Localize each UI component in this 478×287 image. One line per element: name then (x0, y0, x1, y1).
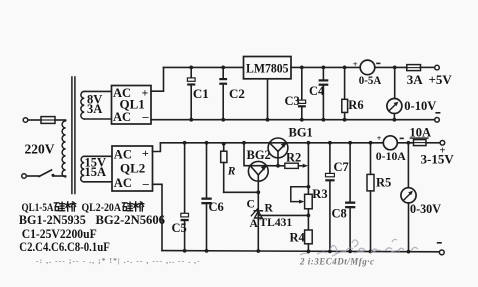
node C5 top (183, 141, 187, 145)
wire meter to fuse10A (397, 142, 413, 144)
node BG2 collector tap (242, 141, 246, 145)
220V primary terminal bottom (22, 174, 27, 179)
node R3 wiper loop top (307, 185, 311, 189)
svg-text:+5V: +5V (429, 72, 453, 87)
fuse 3A (407, 65, 421, 71)
wire QL1 + to top rail (151, 67, 164, 91)
svg-text:C7: C7 (334, 160, 349, 174)
svg-text:0-5A: 0-5A (359, 73, 382, 87)
svg-text:C8: C8 (332, 207, 347, 221)
svg-text:0-30V: 0-30V (410, 202, 441, 216)
capacitor C4 (322, 67, 324, 79)
wire terminal to switch (26, 175, 39, 177)
transistor BG1 (268, 138, 288, 158)
wire vertical R3 branch (307, 143, 309, 195)
wire R3 bottom to junction (307, 209, 309, 230)
svg-text:C3: C3 (285, 94, 300, 108)
svg-text:15A: 15A (85, 165, 107, 179)
wire 15V top to QL2 (84, 155, 112, 157)
node C6 top (205, 141, 209, 145)
terminal +5V (435, 65, 440, 70)
node C1 top (189, 66, 193, 70)
svg-text:2 i:3EC4Dt/Mfg·c: 2 i:3EC4Dt/Mfg·c (299, 257, 375, 267)
bottom rail stage1 (151, 119, 435, 121)
svg-text:3A: 3A (407, 72, 424, 87)
regulator U1 LM7805 (244, 57, 292, 79)
svg-text:R4: R4 (290, 231, 306, 245)
svg-text:LM7805: LM7805 (246, 61, 289, 75)
secondary winding 15V (81, 156, 85, 182)
wire fuse to terminal (426, 142, 440, 144)
switch K (39, 170, 52, 177)
svg-text:C2: C2 (229, 86, 245, 101)
wire QL2 + to rail2 (153, 143, 161, 152)
wire QL2 - down (153, 184, 163, 250)
transistor BG2 (248, 161, 268, 181)
capacitor C2 (222, 67, 224, 78)
node BG1 base / R2 (276, 164, 280, 168)
capacitor C5 (184, 143, 186, 214)
svg-text:BG2: BG2 (247, 148, 271, 162)
node dots bottom rail stage2 (183, 249, 187, 253)
wire LM7805 out rail (291, 66, 360, 68)
svg-text:R6: R6 (348, 98, 363, 112)
svg-text:C2.C4.C6.C8-0.1uF: C2.C4.C6.C8-0.1uF (19, 239, 110, 254)
rail2 top left part (160, 142, 270, 144)
node R5 top (369, 141, 373, 145)
secondary winding 8V (81, 91, 84, 119)
svg-text:R: R (227, 166, 236, 178)
svg-text:QL2: QL2 (120, 160, 145, 175)
svg-text:R: R (265, 203, 274, 215)
node C2 top (221, 66, 225, 70)
wire BG2 emitter to BG1 base (266, 165, 278, 167)
svg-text:R5: R5 (376, 176, 391, 190)
svg-text:C1: C1 (193, 86, 209, 101)
svg-text:0-10V: 0-10V (404, 99, 436, 113)
resistor R (223, 143, 225, 151)
node R2/rail vertical top (307, 141, 311, 145)
minus mark stage1 (435, 112, 440, 114)
capacitor C8 (349, 143, 351, 202)
transformer core (71, 77, 73, 194)
voltmeter M4 0-30V (407, 143, 409, 188)
svg-text:C4: C4 (309, 84, 325, 98)
fuse F (primary) (41, 117, 55, 124)
wire rail to BG2 left (244, 143, 250, 166)
svg-text:C: C (247, 199, 255, 211)
resistor R5 (370, 143, 372, 175)
svg-text:-: ,. --- ;-- - ., ;* !*| .-.: -: ,. --- ;-- - ., ;* !*| .-. -- , --- ,… (36, 256, 201, 265)
svg-text:BG1: BG1 (289, 125, 313, 139)
svg-text:BG1-2N5935: BG1-2N5935 (19, 212, 86, 227)
ammeter M1 0-5A (360, 60, 375, 75)
capacitor C1 (190, 67, 192, 78)
potentiometer R3 (305, 194, 313, 209)
fuse 10A (414, 140, 427, 146)
wire rail to 3A fuse (375, 66, 407, 68)
wire 8V top to QL1 (84, 90, 111, 92)
wire 15V bottom to QL2 (84, 181, 112, 183)
bridge rectifier QL2 (112, 146, 153, 191)
svg-text:10A: 10A (410, 125, 432, 139)
svg-text:–: – (142, 176, 150, 190)
terminal minus stage2 (439, 250, 444, 255)
node C8 top (348, 141, 352, 145)
svg-text:R3: R3 (312, 187, 327, 201)
node R6 top (343, 66, 347, 70)
svg-text:0-10A: 0-10A (376, 149, 406, 163)
svg-text:3-15V: 3-15V (421, 152, 455, 167)
watermark squiggles bottom right (300, 239, 418, 256)
capacitor C7 (329, 143, 331, 174)
wire LM7805 ground pin (267, 79, 269, 120)
resistor R6 (344, 67, 346, 99)
svg-text:A: A (250, 218, 259, 230)
wire R bottom to TL431 node (224, 191, 259, 193)
svg-text:TL431: TL431 (260, 217, 293, 229)
minus mark stage2 (437, 242, 442, 244)
terminal minus stage1 (435, 118, 440, 123)
svg-text:C5: C5 (172, 221, 187, 235)
node C3 top (300, 66, 304, 70)
svg-text:C6: C6 (209, 200, 224, 214)
node 0-10V top (393, 66, 397, 70)
wire fuse to primary winding (55, 119, 66, 121)
wire TL431 ref (258, 214, 308, 216)
ammeter M3 0-10A (383, 136, 397, 150)
resistor R2 (278, 165, 285, 167)
220V primary terminal top (23, 118, 28, 123)
svg-text:+: + (377, 133, 382, 143)
bridge rectifier QL1 (112, 86, 152, 125)
node 0-30V top (407, 141, 411, 145)
terminal 3-15V + (440, 141, 445, 146)
wire fuse to +5V terminal (421, 66, 435, 68)
svg-text:220V: 220V (25, 142, 55, 157)
node R3/R4/ref (307, 214, 311, 218)
svg-text:+: + (142, 146, 149, 160)
svg-text:BG2-2N5606: BG2-2N5606 (96, 212, 166, 227)
node dots bottom rail stage1 (189, 118, 193, 122)
node C4 top (322, 66, 326, 70)
voltmeter M2 0-10V (394, 67, 396, 98)
svg-text:AC: AC (114, 176, 132, 190)
resistor R4 (305, 230, 313, 244)
capacitor C6 (206, 143, 208, 198)
node C7 top (328, 141, 332, 145)
node R top (222, 142, 226, 146)
svg-text:3A: 3A (87, 102, 102, 116)
watermark faint text row (36, 256, 375, 266)
primary winding (62, 121, 66, 177)
wire 8V bottom to QL1 (84, 118, 111, 120)
capacitor C3 (301, 67, 303, 100)
wire top rail (stage1) (164, 66, 244, 68)
svg-text:+: + (142, 86, 149, 100)
svg-text:+: + (353, 59, 358, 69)
svg-text:AC: AC (113, 110, 131, 124)
rail2 right of BG1 (286, 142, 383, 144)
svg-text:–: – (142, 110, 150, 124)
bottom rail stage2 (162, 251, 439, 252)
node R bottom junction (256, 190, 260, 194)
wire terminal to fuse (28, 119, 41, 121)
shunt regulator TL431 (257, 192, 259, 251)
svg-text:R2: R2 (286, 150, 301, 164)
svg-text:AC: AC (114, 147, 132, 161)
